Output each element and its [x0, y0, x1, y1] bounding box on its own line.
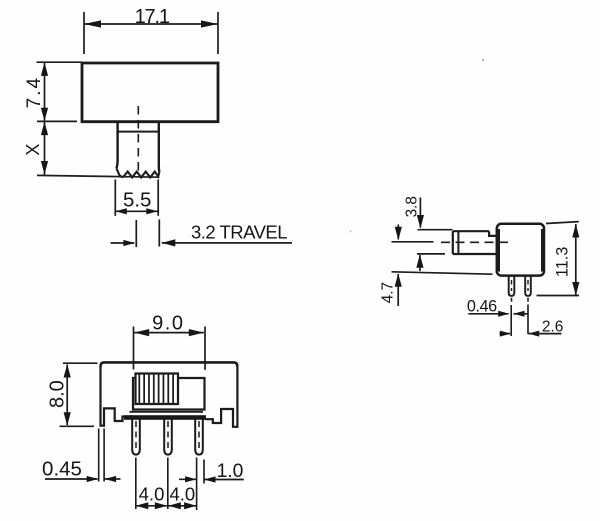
svg-text:X: X — [23, 144, 43, 156]
svg-text:2.6: 2.6 — [542, 318, 564, 335]
svg-text:0.46: 0.46 — [467, 298, 497, 316]
svg-text:1.0: 1.0 — [217, 461, 244, 482]
svg-text:11.3: 11.3 — [554, 247, 572, 277]
svg-text:4.0: 4.0 — [169, 483, 195, 504]
svg-text:0.45: 0.45 — [42, 457, 82, 480]
svg-text:4.0: 4.0 — [139, 483, 165, 504]
svg-text:3.8: 3.8 — [403, 196, 420, 217]
svg-text:7.4: 7.4 — [24, 76, 45, 108]
svg-text:4.7: 4.7 — [379, 282, 396, 303]
svg-text:9.0: 9.0 — [152, 312, 184, 334]
svg-text:5.5: 5.5 — [123, 189, 152, 212]
svg-text:3.2 TRAVEL: 3.2 TRAVEL — [191, 222, 287, 243]
svg-text:8.0: 8.0 — [47, 380, 69, 408]
